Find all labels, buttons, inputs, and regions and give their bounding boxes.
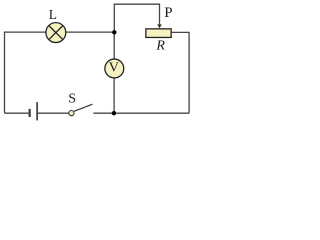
svg-text:R: R: [155, 39, 165, 54]
svg-text:P: P: [164, 5, 172, 21]
wire voltmeter branch upper: [113, 32, 115, 58]
wire battery to switch: [38, 112, 69, 114]
junction node A: [112, 30, 116, 34]
battery long thin plate: [36, 102, 38, 120]
voltmeter V body: [105, 59, 124, 78]
lamp L body: [46, 23, 66, 43]
switch S pivot: [69, 111, 74, 116]
wire voltmeter branch lower: [113, 78, 115, 113]
wire top branch over to wiper: [114, 4, 159, 32]
wire lamp to junction node A: [66, 31, 114, 33]
svg-text:L: L: [49, 7, 57, 22]
wire bottom left to battery: [5, 112, 29, 114]
rheostat R body: [146, 29, 171, 38]
wire left branch: lamp lead + left vertical: [5, 32, 46, 113]
lamp cross: [49, 26, 62, 39]
svg-text:S: S: [68, 92, 76, 107]
wiper arrowhead: [157, 24, 162, 28]
battery short thick plate: [29, 109, 31, 117]
junction node B: [112, 111, 116, 115]
wire rheostat right terminal + right vertical: [172, 32, 189, 113]
svg-text:V: V: [109, 60, 119, 75]
switch S blade: [74, 104, 93, 111]
wire switch to junction node B and on to right corner: [93, 112, 189, 114]
